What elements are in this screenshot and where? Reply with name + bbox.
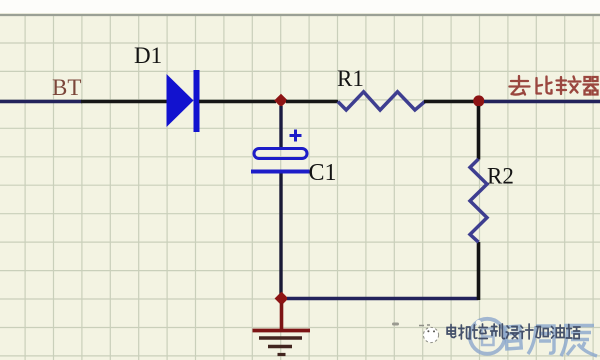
top white band xyxy=(0,0,600,13)
node C junction xyxy=(275,292,289,306)
capacitor C1 bottom plate xyxy=(251,170,310,174)
svg-text:D1: D1 xyxy=(134,43,162,68)
diode D1 xyxy=(167,70,200,132)
wire: R1 to node B xyxy=(424,100,474,104)
wire xyxy=(81,100,167,103)
mascot ear dashes xyxy=(419,324,430,327)
油 xyxy=(551,325,564,338)
wire: node A down to C1 xyxy=(279,106,282,149)
svg-text:BT: BT xyxy=(52,75,81,100)
watermark logo ring xyxy=(470,319,505,354)
net label 去比较器 (to comparator) xyxy=(510,76,599,95)
比 xyxy=(537,77,552,94)
node B junction xyxy=(473,95,484,106)
加 xyxy=(536,327,548,338)
控 xyxy=(473,324,488,339)
node A junction xyxy=(274,94,288,108)
watermark text 电机控制设计加油站 xyxy=(447,324,580,339)
svg-text:R2: R2 xyxy=(487,164,514,189)
watermark big glyph 日 xyxy=(505,326,521,349)
svg-text:C1: C1 xyxy=(309,160,337,186)
wire: diode cathode to node A xyxy=(199,100,276,103)
去 xyxy=(510,76,530,95)
ground bar 4 xyxy=(278,353,286,356)
器 xyxy=(584,77,599,95)
较 xyxy=(557,77,581,95)
制 xyxy=(491,324,505,339)
ground stub xyxy=(280,303,284,330)
站 xyxy=(566,325,580,339)
top sheet border line xyxy=(0,14,600,16)
watermark big glyph 辰 xyxy=(561,326,597,357)
wire: BT lead-in (left edge to diode) xyxy=(0,100,82,103)
mascot dots xyxy=(427,330,435,332)
watermark big glyph 月 xyxy=(528,326,554,354)
svg-text:R1: R1 xyxy=(337,66,364,91)
wire: bottom rail corner up to R2 xyxy=(477,242,481,300)
ground bar 3 xyxy=(268,345,292,348)
watermark logo ring inner glyph xyxy=(482,329,494,346)
wire: C1 down to node C xyxy=(279,174,282,299)
电 xyxy=(447,325,456,338)
resistor R2 xyxy=(470,159,487,242)
watermark logo ring highlight xyxy=(476,320,481,325)
wire: node B to right edge (to comparator) xyxy=(484,100,600,103)
wire: bottom rail node C to R2 xyxy=(287,297,479,301)
机 xyxy=(459,325,470,339)
watermark mascot (white blob) xyxy=(423,327,438,342)
resistor R1 xyxy=(338,92,425,110)
ground bar 2 xyxy=(259,336,302,340)
设 xyxy=(506,326,519,339)
small grey mark xyxy=(392,323,399,326)
ground bar 1 xyxy=(253,329,311,333)
capacitor C1 top plate xyxy=(254,149,307,159)
wire: node A to R1 xyxy=(286,100,338,103)
C1 plus sign xyxy=(290,130,302,142)
wire: node B down to R2 xyxy=(477,106,481,160)
计 xyxy=(520,324,533,339)
